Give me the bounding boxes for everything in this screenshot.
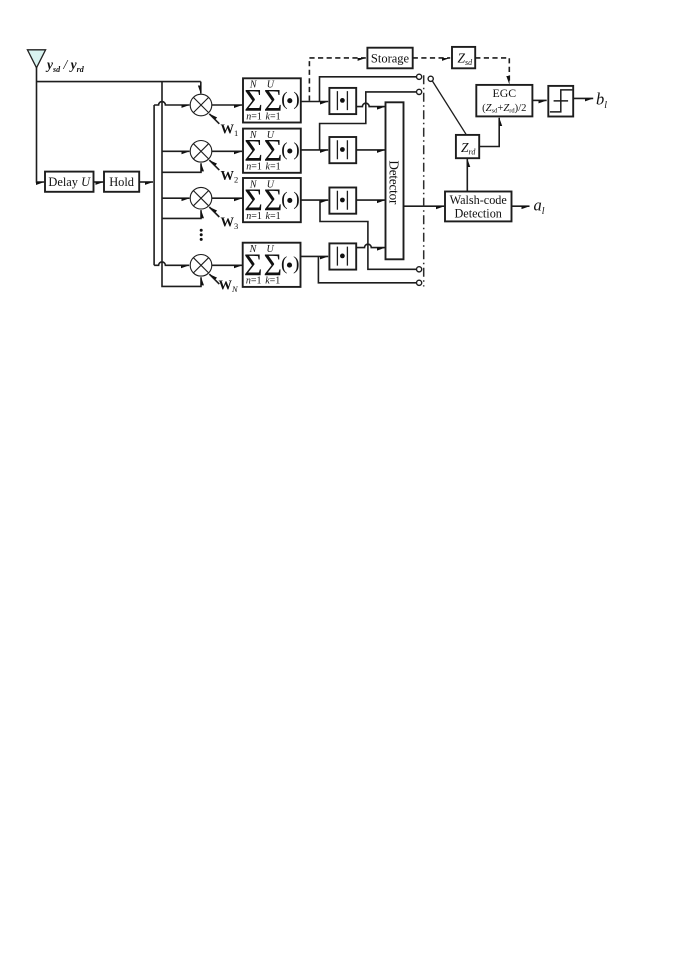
weight W3 arrow and label <box>209 207 219 217</box>
svg-text:ysd / yrd: ysd / yrd <box>45 57 85 74</box>
svg-text:n=1: n=1 <box>246 162 262 173</box>
box slicer <box>548 86 573 117</box>
multiplier MN <box>190 254 212 276</box>
wire Walsh-code output <box>512 205 530 207</box>
wire abs3 to detector <box>356 199 385 201</box>
wire multiplier2 to sum2 <box>212 150 242 152</box>
box Zrd <box>456 135 479 158</box>
svg-text:n=1: n=1 <box>246 211 262 222</box>
summation box S2 <box>243 129 301 173</box>
ellipsis dots <box>200 229 203 241</box>
wire branch sum3 down to terminal3 <box>320 200 417 269</box>
dashed wire sum1 output up to Storage <box>308 58 310 101</box>
wire left bus top corner to multiplier1 left with hop <box>154 102 189 105</box>
box Zsd <box>452 47 475 68</box>
svg-text:k=1: k=1 <box>266 111 281 122</box>
svg-text:Delay U: Delay U <box>48 175 91 189</box>
wire multiplier3 to sum3 <box>212 197 242 199</box>
multiplier M3 <box>190 187 212 209</box>
wire Delay to Hold <box>94 181 104 183</box>
wire sum1 to abs1 <box>301 101 328 103</box>
svg-text:k=1: k=1 <box>266 211 281 222</box>
multiplier M2 <box>190 141 212 163</box>
svg-text:Storage: Storage <box>371 51 410 65</box>
switch pole <box>428 76 433 81</box>
wire abs1 to detector with hop <box>356 103 385 106</box>
svg-text:(: ( <box>281 254 287 275</box>
weight W1 arrow and label <box>209 114 219 124</box>
wire sum3 to abs3 <box>301 199 328 201</box>
wire multiplierN to sumN <box>212 264 242 266</box>
svg-text:): ) <box>293 139 299 160</box>
terminal T3 <box>417 267 422 272</box>
antenna <box>27 50 45 68</box>
abs box A1 <box>329 88 356 114</box>
svg-text:Detection: Detection <box>455 207 502 221</box>
svg-text:al: al <box>534 195 545 217</box>
svg-text:W3: W3 <box>221 215 239 232</box>
svg-text:(: ( <box>281 89 287 110</box>
summation box S3 <box>243 178 301 222</box>
wire slicer output <box>573 97 593 99</box>
weight W2 arrow and label <box>209 160 219 170</box>
box EGC <box>476 85 532 117</box>
svg-text:(: ( <box>281 139 287 160</box>
svg-text:WN: WN <box>219 278 240 295</box>
wire abs4 to detector with hop <box>356 244 385 247</box>
dashed wire Storage to Zsd <box>413 57 451 59</box>
wire right bus stub to multiplier2 bottom <box>162 163 201 172</box>
abs box A2 <box>329 137 356 163</box>
wire branch sumN down to terminal4 <box>318 256 416 282</box>
wire abs2 to detector <box>356 149 385 151</box>
wire into multiplier1 top <box>200 82 202 94</box>
wire sumN to abs4 <box>301 255 329 257</box>
wire Hold to left bus <box>139 181 153 183</box>
wire Detector output to Walsh-code <box>404 205 445 207</box>
wire right bus stub to multiplier3 bottom <box>162 210 201 218</box>
svg-text:k=1: k=1 <box>265 276 280 287</box>
wire Zrd to EGC bottom <box>479 118 499 147</box>
wire EGC to slicer <box>532 99 546 101</box>
dashed wire Zsd to EGC top <box>475 58 509 84</box>
svg-text:Detector: Detector <box>386 160 401 205</box>
svg-text:): ) <box>293 89 299 110</box>
wire Walsh-code to Zrd <box>466 159 468 192</box>
box Walsh-code Detection <box>445 192 512 222</box>
summation box S4 <box>243 243 301 287</box>
wire right bus stub to multiplier3 left <box>162 197 190 199</box>
weight WN arrow and label <box>209 274 219 284</box>
svg-text:W1: W1 <box>221 122 239 139</box>
svg-text:Hold: Hold <box>109 175 135 189</box>
svg-text:Walsh-code: Walsh-code <box>450 193 507 207</box>
svg-text:bl: bl <box>596 90 607 112</box>
box Hold <box>104 172 139 192</box>
wire multiplier1 to sum1 <box>212 104 242 106</box>
wire right bus stub to multiplier2 left <box>162 150 190 152</box>
abs box A3 <box>329 188 356 214</box>
box Detector <box>386 102 404 259</box>
terminal T4 <box>417 280 422 285</box>
svg-text:EGC: EGC <box>492 86 516 100</box>
wire top horizontal from antenna <box>37 81 201 83</box>
abs box A4 <box>329 243 356 269</box>
wire antenna stem to Delay U <box>37 67 45 182</box>
slicer step symbol <box>550 90 573 112</box>
svg-text:(Zsd+Zrd)/2: (Zsd+Zrd)/2 <box>482 103 526 115</box>
box Storage <box>367 48 412 69</box>
multiplier M1 <box>190 94 212 116</box>
wire branch sum2 up to terminal2 <box>320 92 417 150</box>
wire sum2 to abs2 <box>301 149 328 151</box>
dash-dot boundary line <box>423 75 425 286</box>
svg-text:W2: W2 <box>221 168 239 185</box>
terminal T1 <box>417 74 422 79</box>
svg-text:): ) <box>293 254 299 275</box>
switch arm wire <box>432 81 466 135</box>
wire left bus vertical <box>153 105 155 265</box>
summation box S1 <box>243 78 301 122</box>
box Delay U <box>45 172 94 192</box>
wire left bus bottom corner to multiplierN left with hop <box>154 262 189 265</box>
svg-text:): ) <box>293 189 299 210</box>
wire branch sum1 up to terminal1 <box>320 77 417 102</box>
svg-text:k=1: k=1 <box>266 162 281 173</box>
svg-text:n=1: n=1 <box>246 111 262 122</box>
terminal T2 <box>417 89 422 94</box>
svg-text:(: ( <box>281 189 287 210</box>
svg-text:n=1: n=1 <box>246 276 262 287</box>
wire right bus vertical <box>162 82 201 287</box>
